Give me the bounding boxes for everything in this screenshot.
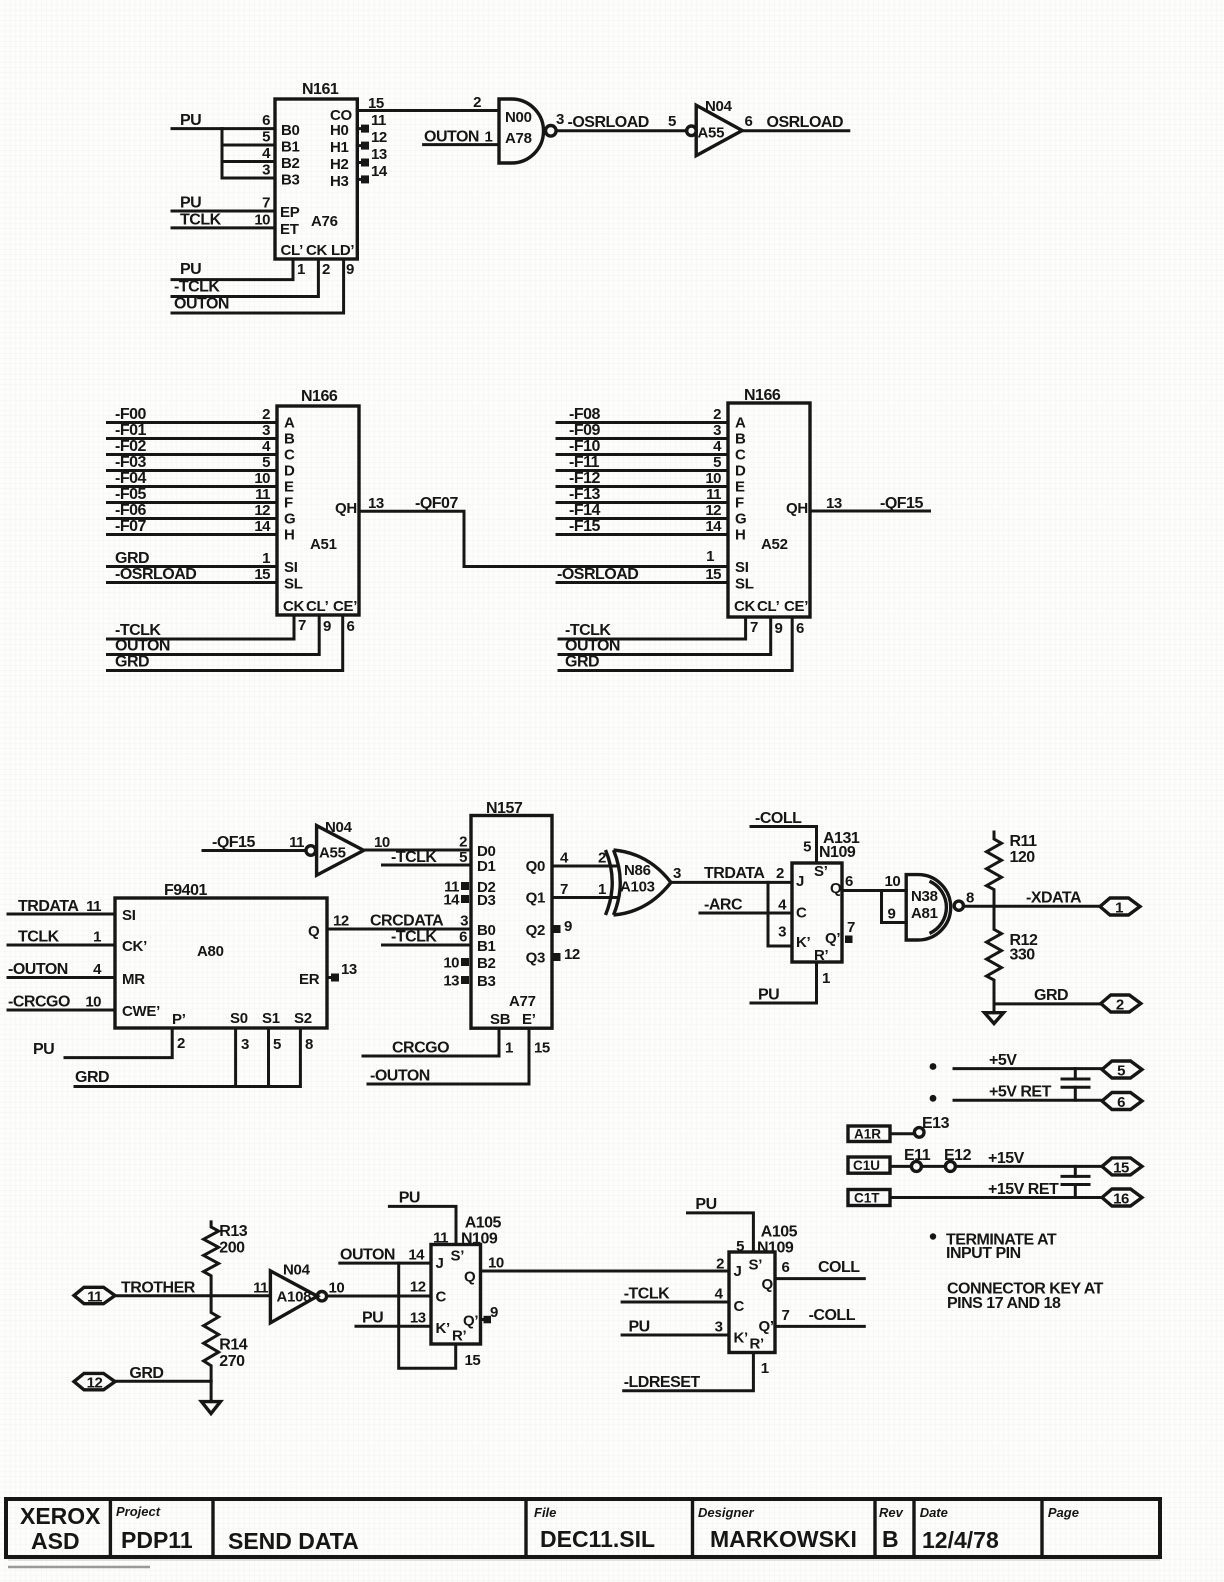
- connector pin 16 hexagon: [1102, 1189, 1142, 1208]
- svg-text:R’: R’: [750, 1336, 765, 1353]
- svg-text:330: 330: [1010, 947, 1036, 964]
- svg-text:A103: A103: [620, 879, 655, 896]
- svg-text:5: 5: [668, 113, 676, 130]
- svg-text:H0: H0: [330, 122, 349, 139]
- wire OUTON to LD' pin 9: [172, 259, 354, 313]
- svg-text:P’: P’: [172, 1011, 186, 1028]
- svg-text:1: 1: [1115, 900, 1123, 917]
- jk flip-flop U-A131 N109 box: [792, 830, 860, 964]
- svg-text:4: 4: [262, 438, 271, 455]
- svg-text:PU: PU: [180, 261, 201, 278]
- wire PU to B0 pin 6: [172, 112, 275, 129]
- svg-text:12: 12: [371, 129, 387, 146]
- svg-text:7: 7: [262, 195, 270, 212]
- connector pin 2 hexagon: [1101, 995, 1141, 1014]
- svg-text:MR: MR: [122, 971, 145, 988]
- wire QH pin 13 -QF15 net: [810, 495, 930, 512]
- svg-text:CK: CK: [306, 242, 328, 259]
- title block frame: [6, 1499, 1160, 1557]
- wire OUTON to CL' pin 9 of A52: [559, 617, 783, 655]
- wire -F02 pin 4: [108, 438, 278, 455]
- svg-text:2: 2: [1116, 997, 1124, 1014]
- wire -OUTON to E' pin 15: [368, 1028, 550, 1084]
- wire TCLK to CK' pin 1: [8, 929, 115, 946]
- svg-text:B2: B2: [281, 155, 300, 172]
- svg-text:7: 7: [847, 919, 855, 936]
- svg-text:-LDRESET: -LDRESET: [624, 1374, 701, 1391]
- wire OUTON to NAND A78 pin 1: [424, 129, 499, 146]
- svg-text:13: 13: [410, 1310, 426, 1327]
- svg-text:1: 1: [598, 881, 606, 898]
- pin Q' 7 terminator: [845, 919, 855, 943]
- svg-text:LD’: LD’: [331, 242, 354, 259]
- svg-text:B1: B1: [477, 938, 496, 955]
- svg-text:A55: A55: [319, 845, 346, 862]
- svg-text:OUTON: OUTON: [115, 638, 170, 655]
- svg-text:OUTON: OUTON: [340, 1247, 395, 1264]
- svg-text:SI: SI: [122, 907, 136, 924]
- svg-text:TRDATA: TRDATA: [704, 865, 765, 882]
- node A1R box: [848, 1126, 890, 1142]
- wire -F07 pin 14: [108, 518, 278, 535]
- note terminate at input pin: [930, 1232, 1057, 1263]
- svg-text:10: 10: [374, 834, 390, 851]
- svg-text:SI: SI: [735, 559, 749, 576]
- wire -TCLK to B1 pin 6: [383, 929, 472, 946]
- svg-text:12: 12: [254, 502, 270, 519]
- svg-text:CK: CK: [734, 598, 756, 615]
- svg-text:11: 11: [433, 1230, 448, 1247]
- svg-text:8: 8: [966, 890, 974, 907]
- svg-text:-QF07: -QF07: [415, 495, 458, 512]
- svg-text:10: 10: [85, 994, 101, 1011]
- svg-text:K’: K’: [436, 1320, 451, 1337]
- svg-text:Q’: Q’: [759, 1318, 774, 1335]
- svg-text:-ARC: -ARC: [704, 897, 743, 914]
- svg-text:S2: S2: [294, 1010, 312, 1027]
- svg-text:-XDATA: -XDATA: [1026, 890, 1082, 907]
- svg-text:3: 3: [460, 913, 468, 930]
- wire TCLK to ET pin 10: [172, 211, 275, 228]
- svg-text:2: 2: [459, 834, 467, 851]
- wire PU to R' pin 1: [751, 962, 830, 1004]
- wire GRD to CE' pin 6 of A51: [108, 615, 355, 671]
- svg-text:9: 9: [775, 620, 783, 637]
- svg-text:-TCLK: -TCLK: [624, 1286, 670, 1303]
- svg-text:6: 6: [347, 618, 355, 635]
- svg-text:10: 10: [443, 955, 459, 972]
- pin Q2 9 terminator: [553, 918, 573, 935]
- svg-text:PU: PU: [180, 195, 201, 212]
- resistor R11 120: [987, 832, 1038, 906]
- svg-text:N86: N86: [624, 862, 651, 879]
- wire -CRCGO to CWE' pin 10: [8, 994, 115, 1011]
- svg-text:SEND DATA: SEND DATA: [228, 1528, 359, 1554]
- svg-text:-OSRLOAD: -OSRLOAD: [115, 566, 196, 583]
- inverter A55 N04 mid: [306, 819, 364, 875]
- svg-text:A105: A105: [465, 1215, 502, 1232]
- svg-text:J: J: [436, 1255, 444, 1272]
- svg-text:GRD: GRD: [565, 654, 599, 671]
- wire -F15 pin 14: [557, 518, 728, 535]
- pin H2 13 terminator: [357, 146, 387, 167]
- svg-text:6: 6: [845, 873, 853, 890]
- svg-text:11: 11: [253, 1280, 268, 1297]
- svg-text:4: 4: [93, 961, 102, 978]
- svg-text:6: 6: [1117, 1094, 1125, 1111]
- counter U-A76 N161 box: [275, 81, 357, 259]
- svg-text:A52: A52: [761, 536, 788, 553]
- wire PU to P' pin 2: [33, 1028, 185, 1058]
- svg-text:N157: N157: [486, 800, 523, 817]
- svg-text:+15V RET: +15V RET: [988, 1181, 1059, 1198]
- svg-text:S1: S1: [262, 1010, 280, 1027]
- svg-text:270: 270: [219, 1353, 245, 1370]
- svg-text:B3: B3: [477, 973, 496, 990]
- svg-text:1: 1: [706, 548, 714, 565]
- svg-text:13: 13: [371, 146, 387, 163]
- svg-text:PU: PU: [629, 1319, 650, 1336]
- wire GRD to connector 2: [994, 987, 1101, 1004]
- jumper E13: [890, 1115, 950, 1137]
- connector pin 1 hexagon: [1100, 898, 1140, 917]
- wire OUTON to CL' pin 9 of A51: [108, 615, 332, 655]
- svg-text:15: 15: [465, 1352, 481, 1369]
- svg-text:2: 2: [713, 406, 721, 423]
- svg-text:4: 4: [713, 438, 722, 455]
- svg-text:CL’: CL’: [281, 242, 304, 259]
- wire -COLL to S' pin 5: [751, 810, 817, 863]
- svg-text:B2: B2: [477, 955, 496, 972]
- svg-text:5: 5: [459, 849, 467, 866]
- wire -F06 pin 12: [108, 502, 278, 519]
- wire PU to S' pin 11 of first A105: [389, 1190, 456, 1247]
- svg-text:-F00: -F00: [115, 406, 147, 423]
- svg-text:-OUTON: -OUTON: [8, 961, 68, 978]
- svg-text:H2: H2: [330, 156, 349, 173]
- svg-text:N109: N109: [461, 1231, 498, 1248]
- wire -F08 pin 2: [557, 406, 728, 423]
- svg-text:-TCLK: -TCLK: [391, 929, 437, 946]
- svg-text:7: 7: [750, 619, 758, 636]
- pin B2 10 terminator: [443, 955, 469, 972]
- wire -TCLK to D1 pin 5: [383, 849, 472, 866]
- svg-text:-F15: -F15: [569, 518, 601, 535]
- svg-text:15: 15: [705, 566, 721, 583]
- svg-text:TCLK: TCLK: [180, 211, 222, 228]
- title cell Date 12/4/78: [920, 1505, 999, 1553]
- wire -TCLK to CK pin 2: [172, 259, 330, 297]
- wire GRD to SI pin 1: [108, 550, 278, 567]
- svg-text:CK: CK: [283, 598, 305, 615]
- wire Q pin 10 to J pin 2 of second A105: [481, 1255, 730, 1273]
- terminate bullet +5V: [930, 1063, 937, 1070]
- svg-text:PINS 17 AND 18: PINS 17 AND 18: [947, 1295, 1061, 1312]
- wire -OSRLOAD pin 3 to pin 5: [556, 111, 687, 131]
- svg-text:N109: N109: [819, 844, 856, 861]
- svg-text:-COLL: -COLL: [809, 1307, 856, 1324]
- svg-text:Q: Q: [762, 1276, 774, 1293]
- svg-text:13: 13: [368, 495, 384, 512]
- svg-text:11: 11: [255, 486, 270, 503]
- svg-text:J: J: [796, 873, 804, 890]
- svg-text:1: 1: [761, 1360, 769, 1377]
- wire -TCLK to CK pin 7 of A51: [108, 615, 307, 639]
- svg-text:SB: SB: [490, 1011, 511, 1028]
- svg-text:R13: R13: [219, 1223, 247, 1240]
- svg-text:A77: A77: [509, 993, 536, 1010]
- svg-text:-F06: -F06: [115, 502, 147, 519]
- wire Q pin 6 to nand pins 10 and 9: [842, 873, 906, 923]
- svg-text:11: 11: [371, 112, 386, 129]
- svg-text:9: 9: [564, 918, 572, 935]
- svg-text:6: 6: [782, 1259, 790, 1276]
- wire -F01 pin 3: [108, 422, 278, 439]
- svg-text:S’: S’: [451, 1248, 465, 1265]
- svg-text:Page: Page: [1048, 1505, 1079, 1520]
- svg-text:-F09: -F09: [569, 422, 601, 439]
- nand gate A78 N00: [499, 99, 556, 163]
- svg-text:Q’: Q’: [825, 930, 840, 947]
- svg-text:15: 15: [534, 1040, 550, 1057]
- svg-text:N04: N04: [705, 98, 733, 115]
- svg-text:C: C: [436, 1289, 447, 1306]
- connector pin 11 hexagon: [74, 1287, 115, 1305]
- svg-text:3: 3: [713, 422, 721, 439]
- wire -F11 pin 5: [557, 454, 728, 471]
- wire TROTHER to inverter A108: [115, 1280, 270, 1297]
- wire PU to CL' pin 1: [172, 259, 305, 280]
- svg-text:PU: PU: [362, 1310, 383, 1327]
- svg-text:-F10: -F10: [569, 438, 601, 455]
- svg-text:R14: R14: [219, 1337, 247, 1354]
- svg-text:14: 14: [705, 518, 722, 535]
- svg-text:SI: SI: [284, 559, 298, 576]
- svg-text:7: 7: [782, 1307, 790, 1324]
- svg-text:Q0: Q0: [526, 858, 545, 875]
- pin Q3 12 terminator: [553, 946, 580, 963]
- pin Q' 9 terminator of first A105: [481, 1304, 499, 1323]
- svg-text:B: B: [284, 431, 295, 448]
- svg-text:OUTON: OUTON: [424, 129, 479, 146]
- svg-text:N38: N38: [911, 888, 938, 905]
- svg-text:A81: A81: [911, 905, 938, 922]
- svg-text:2: 2: [473, 94, 481, 111]
- svg-text:-TCLK: -TCLK: [174, 279, 220, 296]
- svg-text:PU: PU: [399, 1190, 420, 1207]
- svg-text:H3: H3: [330, 173, 349, 190]
- svg-text:11: 11: [289, 834, 304, 851]
- svg-text:CRCGO: CRCGO: [392, 1040, 449, 1057]
- svg-text:+15V: +15V: [988, 1150, 1025, 1167]
- svg-text:XEROX: XEROX: [20, 1503, 101, 1529]
- xor gate A103 N86: [606, 850, 671, 915]
- svg-text:-F07: -F07: [115, 518, 147, 535]
- svg-text:5: 5: [803, 839, 811, 856]
- svg-text:-F08: -F08: [569, 406, 601, 423]
- wire xor pin 3 TRDATA to J pin 2: [671, 865, 792, 882]
- svg-text:A: A: [735, 415, 746, 432]
- wire +15V RET to connector 16: [890, 1181, 1102, 1198]
- svg-text:-F05: -F05: [115, 486, 147, 503]
- svg-text:C: C: [735, 447, 746, 464]
- svg-text:3: 3: [262, 422, 270, 439]
- svg-text:A76: A76: [311, 213, 338, 230]
- svg-text:TCLK: TCLK: [18, 929, 60, 946]
- wire -F14 pin 12: [557, 502, 728, 519]
- svg-text:14: 14: [371, 163, 388, 180]
- wire -OUTON to MR pin 4: [8, 961, 115, 978]
- svg-text:2: 2: [177, 1035, 185, 1052]
- svg-text:9: 9: [346, 261, 354, 278]
- svg-text:13: 13: [341, 961, 357, 978]
- svg-text:F: F: [735, 495, 744, 512]
- pin ER 13 terminator: [327, 961, 357, 982]
- svg-text:15: 15: [254, 566, 270, 583]
- wire -F03 pin 5: [108, 454, 278, 471]
- svg-text:3: 3: [556, 111, 564, 128]
- terminate bullet +5V RET: [930, 1095, 937, 1102]
- svg-text:6: 6: [796, 620, 804, 637]
- wire -F12 pin 10: [557, 470, 728, 487]
- svg-text:7: 7: [298, 617, 306, 634]
- svg-text:10: 10: [254, 470, 270, 487]
- svg-text:B0: B0: [281, 122, 300, 139]
- svg-text:C1T: C1T: [854, 1191, 880, 1206]
- svg-text:E12: E12: [944, 1147, 972, 1164]
- svg-text:COLL: COLL: [818, 1259, 860, 1276]
- svg-text:MARKOWSKI: MARKOWSKI: [710, 1526, 857, 1552]
- wire junction vertical B0-B3: [221, 129, 224, 178]
- wire PU to K' pin 13 of first A105: [356, 1310, 431, 1327]
- ground symbol below R12: [985, 1004, 1004, 1024]
- svg-text:Designer: Designer: [698, 1505, 755, 1520]
- data selector U-A77 N157 box: [471, 800, 552, 1028]
- svg-text:10: 10: [705, 470, 721, 487]
- svg-text:15: 15: [368, 95, 384, 112]
- svg-text:N109: N109: [757, 1240, 794, 1257]
- svg-text:CWE’: CWE’: [122, 1003, 160, 1020]
- resistor R14 270: [204, 1296, 248, 1381]
- svg-text:A55: A55: [698, 125, 725, 142]
- jk flip-flop U-A105 N109 second box: [729, 1224, 798, 1353]
- scan artifact line bottom left: [8, 1566, 150, 1569]
- svg-text:-F14: -F14: [569, 502, 601, 519]
- svg-text:GRD: GRD: [115, 654, 149, 671]
- connector pin 5 hexagon: [1102, 1061, 1142, 1080]
- svg-text:CE’: CE’: [333, 598, 357, 615]
- svg-text:11: 11: [86, 898, 101, 915]
- svg-text:G: G: [735, 511, 746, 528]
- jumpers E11 E12 and wire +15V to connector 15: [890, 1147, 1102, 1171]
- svg-text:H: H: [735, 527, 746, 544]
- svg-text:E’: E’: [522, 1011, 536, 1028]
- svg-text:B1: B1: [281, 139, 300, 156]
- svg-text:B3: B3: [281, 172, 300, 189]
- title cell XEROX ASD: [20, 1503, 101, 1554]
- wire +5V RET to connector 6: [954, 1084, 1102, 1101]
- node C1U box: [848, 1157, 890, 1173]
- connector pin 15 hexagon: [1102, 1158, 1142, 1177]
- svg-text:2: 2: [716, 1256, 724, 1273]
- svg-text:A80: A80: [197, 943, 224, 960]
- svg-text:SL: SL: [284, 576, 303, 593]
- wire GRD to S0 S1 S2 pins 3 5 8: [75, 1028, 313, 1087]
- svg-text:ET: ET: [280, 221, 299, 238]
- svg-text:9: 9: [490, 1304, 498, 1321]
- wire PU to EP pin 7: [172, 195, 275, 212]
- svg-text:1: 1: [93, 929, 101, 946]
- svg-text:A108: A108: [277, 1289, 312, 1306]
- svg-text:5: 5: [1117, 1063, 1125, 1080]
- svg-text:3: 3: [715, 1319, 723, 1336]
- svg-text:A78: A78: [505, 130, 532, 147]
- wire inverter output to C pin 12 of A105: [327, 1295, 431, 1298]
- shift register U-A51 N166 box: [277, 388, 359, 615]
- svg-text:INPUT PIN: INPUT PIN: [946, 1245, 1021, 1262]
- svg-text:R11: R11: [1010, 833, 1038, 850]
- svg-text:OSRLOAD: OSRLOAD: [767, 114, 844, 131]
- svg-text:5: 5: [736, 1238, 744, 1255]
- svg-text:ER: ER: [299, 971, 320, 988]
- svg-text:PU: PU: [758, 987, 779, 1004]
- svg-text:N166: N166: [744, 387, 781, 404]
- svg-text:C: C: [796, 905, 807, 922]
- svg-text:200: 200: [219, 1240, 245, 1257]
- svg-text:-TCLK: -TCLK: [565, 622, 611, 639]
- capacitor +15V bypass: [1062, 1166, 1089, 1197]
- note connector key: [947, 1281, 1104, 1313]
- pin H0 11 terminator: [357, 112, 386, 133]
- svg-text:11: 11: [706, 486, 721, 503]
- svg-text:Q2: Q2: [526, 922, 545, 939]
- svg-text:E: E: [735, 479, 745, 496]
- wire -ARC to C pin 4: [700, 897, 792, 914]
- svg-text:10: 10: [254, 211, 270, 228]
- svg-text:-TCLK: -TCLK: [391, 849, 437, 866]
- wire to B3 pin 3: [222, 162, 275, 179]
- svg-text:F9401: F9401: [164, 882, 207, 899]
- svg-text:Project: Project: [116, 1504, 161, 1519]
- wire CO pin 15 to NAND A78 pin 2: [357, 94, 499, 112]
- svg-text:-COLL: -COLL: [755, 810, 802, 827]
- svg-text:13: 13: [826, 495, 842, 512]
- svg-text:DEC11.SIL: DEC11.SIL: [540, 1526, 655, 1552]
- svg-text:-OSRLOAD: -OSRLOAD: [568, 114, 649, 131]
- wire to B1 pin 5: [222, 129, 275, 146]
- svg-text:11: 11: [87, 1289, 102, 1306]
- svg-text:H1: H1: [330, 139, 349, 156]
- wire -OSRLOAD to SL pin 15 of A52: [557, 566, 728, 583]
- inverter A108 N04: [253, 1262, 344, 1323]
- svg-text:PU: PU: [180, 112, 201, 129]
- svg-text:QH: QH: [335, 500, 357, 517]
- wire -TCLK to CK pin 7 of A52: [559, 617, 758, 639]
- svg-text:13: 13: [443, 973, 459, 990]
- svg-text:GRD: GRD: [129, 1365, 163, 1382]
- svg-text:5: 5: [262, 129, 270, 146]
- wire +5V to connector 5: [954, 1052, 1102, 1069]
- wire -F05 pin 11: [108, 486, 278, 503]
- svg-text:N00: N00: [505, 109, 532, 126]
- svg-text:E11: E11: [904, 1147, 931, 1164]
- svg-text:14: 14: [443, 892, 460, 909]
- pin H3 14 terminator: [357, 163, 388, 183]
- svg-text:GRD: GRD: [1034, 987, 1068, 1004]
- svg-text:-CRCGO: -CRCGO: [8, 994, 70, 1011]
- svg-text:A105: A105: [761, 1224, 798, 1241]
- svg-text:ASD: ASD: [31, 1528, 80, 1554]
